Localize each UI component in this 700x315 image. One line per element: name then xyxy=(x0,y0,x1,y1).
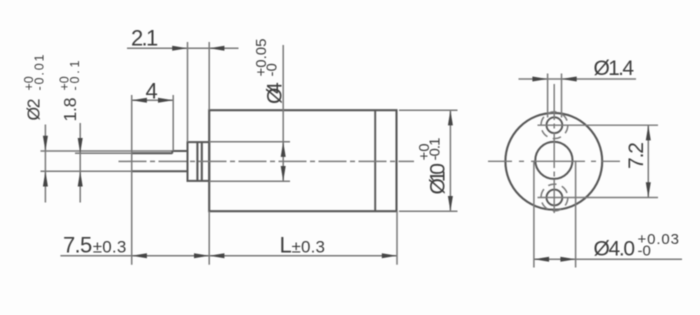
dia10 arrow up xyxy=(448,110,453,125)
dimension 4 line xyxy=(132,99,174,101)
shaft bottom extension line xyxy=(41,170,132,172)
dia4 arrow up xyxy=(281,142,286,157)
L arrow right xyxy=(382,253,397,258)
dia1.4 dimension line xyxy=(519,78,637,80)
extension line flat end xyxy=(172,95,174,151)
top hole horizontal tick / 7.2 extension xyxy=(538,124,659,126)
top screw hole dashed circle xyxy=(541,112,568,139)
dia1.4 arrow right xyxy=(562,77,577,82)
motor end cap line xyxy=(374,110,376,211)
dia10 arrow down xyxy=(448,196,453,211)
dia4.0 extension right xyxy=(575,161,577,268)
dia4.0 extension left xyxy=(533,161,535,268)
svg-text:-0: -0 xyxy=(264,63,281,76)
end view horizontal center line xyxy=(488,160,620,162)
dimension 4 arrow left xyxy=(132,98,147,103)
svg-text:Ø2: Ø2 xyxy=(24,99,44,121)
bottom screw hole xyxy=(547,190,563,206)
extension line shaft tip xyxy=(131,95,133,265)
center line side view xyxy=(119,160,415,162)
dia10 extension top xyxy=(399,109,458,111)
top screw hole xyxy=(547,117,563,133)
7.2 arrow up xyxy=(646,125,651,140)
dimension 2.1 arrow right xyxy=(209,46,224,51)
washer line left xyxy=(196,142,198,181)
dimension dia10 line xyxy=(449,110,451,211)
dimension 1.8 line xyxy=(79,123,81,203)
motor body outline xyxy=(209,110,396,211)
shaft flat step xyxy=(171,151,173,154)
L arrow left xyxy=(209,253,224,258)
bottom screw hole dashed circle xyxy=(541,184,568,211)
shaft top edge xyxy=(172,150,187,152)
dia4.0 dimension line xyxy=(534,258,682,260)
label dia4 tol xyxy=(253,39,286,105)
1.8 arrow up xyxy=(78,171,83,186)
dia4 arrow down xyxy=(281,166,286,181)
washer line right xyxy=(201,142,203,181)
7.2 arrow down xyxy=(646,182,651,197)
svg-text:-0.01: -0.01 xyxy=(33,54,47,90)
dia2 arrow down xyxy=(43,136,48,151)
svg-text:2.1: 2.1 xyxy=(131,25,158,50)
collar dia extension bottom xyxy=(209,180,290,182)
dia10 extension bottom xyxy=(399,210,458,212)
dia4.0 arrow left xyxy=(534,257,549,262)
collar dia extension top xyxy=(209,141,290,143)
dia4.0 arrow right xyxy=(560,257,575,262)
7.5 arrow right xyxy=(194,253,209,258)
svg-text:-0: -0 xyxy=(638,243,651,260)
dimension 4 arrow right xyxy=(158,98,173,103)
svg-text:7.5: 7.5 xyxy=(63,233,92,258)
svg-text:-0.1: -0.1 xyxy=(427,138,444,161)
extension line body left top xyxy=(208,42,210,110)
dia1.4 arrow left xyxy=(532,77,547,82)
end view vertical center line xyxy=(553,84,555,213)
svg-text:4: 4 xyxy=(146,79,158,104)
dia1.4 extension right xyxy=(561,74,563,118)
dimension 7.5 and L shared line xyxy=(60,255,397,257)
label dia10 tol xyxy=(416,138,449,195)
dimension dia4 line xyxy=(282,45,284,181)
extension body left bottom xyxy=(208,211,210,265)
svg-text:Ø10: Ø10 xyxy=(427,163,450,195)
dimension 2.1 line xyxy=(127,47,239,49)
extension line collar left xyxy=(187,42,189,142)
svg-text:7.2: 7.2 xyxy=(625,142,648,169)
svg-text:L: L xyxy=(280,233,292,258)
shaft top extension line xyxy=(41,150,173,152)
dia2 arrow up xyxy=(43,171,48,186)
extension body right bottom xyxy=(396,211,398,265)
svg-text:±0.3: ±0.3 xyxy=(292,238,326,257)
dimension 7.2 line xyxy=(647,125,649,197)
1.8 arrow down xyxy=(78,138,83,153)
shaft flat edge xyxy=(132,152,173,154)
svg-text:Ø4: Ø4 xyxy=(264,82,287,104)
end view center hole xyxy=(535,142,572,179)
bearing collar xyxy=(188,142,210,181)
bottom hole horizontal tick / 7.2 extension xyxy=(538,197,659,199)
shaft flat extension line xyxy=(75,152,132,154)
svg-text:Ø1.4: Ø1.4 xyxy=(594,57,635,80)
dia1.4 extension left xyxy=(547,74,549,118)
shaft bottom edge xyxy=(132,170,188,172)
svg-text:Ø4.0: Ø4.0 xyxy=(594,238,636,261)
7.5 arrow left xyxy=(132,253,147,258)
dimension 2.1 arrow left xyxy=(172,46,187,51)
label 7.2 xyxy=(625,142,648,169)
dimension dia2 line xyxy=(44,125,46,203)
end view outer circle xyxy=(505,113,602,210)
label 1.8 tol xyxy=(58,60,83,121)
svg-text:1.8: 1.8 xyxy=(60,98,80,122)
svg-text:±0.3: ±0.3 xyxy=(93,238,127,257)
label dia2 tol xyxy=(22,54,47,120)
